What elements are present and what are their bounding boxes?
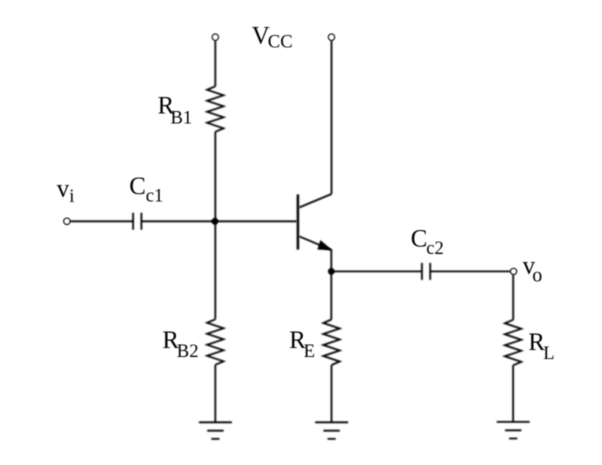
svg-text:c1: c1	[146, 185, 164, 206]
svg-text:L: L	[543, 343, 554, 364]
svg-text:CC: CC	[268, 31, 293, 52]
svg-text:o: o	[532, 265, 542, 287]
svg-text:E: E	[304, 341, 315, 362]
svg-text:v: v	[57, 176, 70, 203]
svg-text:i: i	[69, 186, 74, 207]
svg-text:B1: B1	[171, 107, 193, 128]
svg-text:C: C	[129, 173, 146, 200]
svg-text:c2: c2	[426, 238, 444, 259]
svg-text:C: C	[411, 225, 428, 252]
svg-text:B2: B2	[177, 341, 199, 362]
